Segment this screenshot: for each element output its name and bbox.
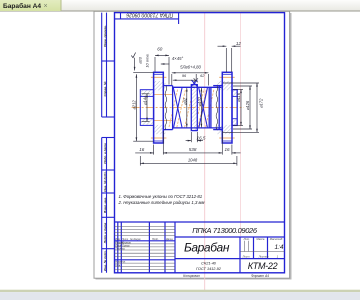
wavy break line right: [216, 86, 218, 130]
svg-text:5Лв6+4,80: 5Лв6+4,80: [180, 65, 201, 70]
dim 1048 ext lines: [139, 156, 141, 166]
central divider: [191, 85, 197, 131]
secondary chain line: [173, 79, 196, 81]
svg-text:16: 16: [224, 147, 230, 152]
part: left hub: [140, 90, 153, 126]
svg-text:№ докум.: № докум.: [130, 238, 141, 241]
svg-text:Подп. и дата: Подп. и дата: [103, 222, 107, 243]
svg-text:12: 12: [236, 41, 242, 46]
dia144 ext lines: [142, 93, 150, 95]
technical notes: [118, 194, 205, 205]
svg-text:1048: 1048: [188, 157, 198, 162]
svg-text:⌀212: ⌀212: [132, 100, 137, 110]
dimension texts: [132, 41, 264, 163]
dim 1048 line: [140, 162, 237, 164]
svg-text:Инв. № подл.: Инв. № подл.: [103, 250, 107, 271]
dia212 dim line: [135, 74, 137, 141]
bore lines left: [154, 94, 173, 96]
top designation box (grafa 26): [115, 13, 179, 24]
svg-text:60: 60: [157, 47, 163, 52]
svg-text:Копировал: Копировал: [183, 274, 200, 278]
svg-text:⌀116: ⌀116: [236, 92, 241, 102]
dim 96/62 ext lines: [171, 74, 173, 85]
title block thin row lines: [115, 227, 285, 270]
svg-text:Справ. №: Справ. №: [103, 81, 107, 96]
svg-text:ППКА 713000.09026: ППКА 713000.09026: [126, 12, 173, 18]
svg-text:⌀92: ⌀92: [182, 97, 187, 105]
svg-text:Дата: Дата: [165, 238, 173, 241]
bottom status area: [0, 292, 360, 300]
rope crossover X above divider: [191, 80, 197, 86]
active tab: [0, 0, 61, 11]
barrel inner walls: [172, 86, 174, 130]
top bar: [0, 0, 360, 11]
side column strip verticals: [102, 13, 115, 273]
sheet shadow: [96, 13, 292, 280]
part: right flange: [222, 72, 232, 143]
dia172 dim line: [256, 83, 258, 132]
dim 12 line: [218, 45, 227, 47]
svg-text:×: ×: [44, 3, 48, 10]
dim 16,5 ext+arrows: [190, 132, 192, 142]
svg-text:Лист: Лист: [242, 255, 251, 259]
hatch right flange top: [217, 81, 231, 90]
dia92 dim line: [186, 88, 188, 128]
title block small texts: [115, 238, 173, 267]
svg-text:Взам. инв.: Взам. инв.: [103, 197, 107, 213]
hatch right hub strips: [232, 90, 237, 96]
part: left flange: [154, 72, 164, 143]
bottom chain line: [135, 152, 153, 154]
svg-text:Масштаб: Масштаб: [270, 237, 283, 241]
dia126 dim line: [249, 86, 251, 129]
svg-text:⌀172: ⌀172: [259, 98, 264, 108]
dim 60 ext lines: [154, 57, 156, 72]
svg-text:⌀20: ⌀20: [138, 56, 143, 64]
svg-text:⌀144: ⌀144: [142, 95, 147, 105]
svg-text:Подп. и дата: Подп. и дата: [103, 143, 107, 164]
svg-text:Барабан А4: Барабан А4: [3, 2, 41, 10]
svg-text:Орлов: Орлов: [122, 245, 130, 248]
svg-text:ППКА 713000.09026: ППКА 713000.09026: [192, 226, 258, 235]
sheet paper: [94, 11, 290, 278]
barrel outer top/bottom: [163, 86, 222, 130]
side column dividers: [102, 60, 115, 62]
roughness check: [131, 53, 135, 58]
svg-text:Утв.: Утв.: [115, 264, 121, 267]
part: right hub: [232, 90, 237, 126]
svg-text:Подп.: Подп.: [152, 238, 159, 241]
svg-text:Формат А4: Формат А4: [251, 274, 269, 278]
cone wall diagonals blue: [173, 88, 207, 127]
chamfer leader: [161, 63, 170, 65]
svg-text:16: 16: [139, 147, 145, 152]
title block outer lines: [115, 222, 285, 273]
hatch left hub strips: [141, 90, 153, 96]
title block headers: [242, 237, 283, 259]
pink print-guide line 2: [239, 12, 241, 236]
hatch right flange bottom: [217, 125, 231, 134]
svg-text:1:4: 1:4: [274, 244, 283, 251]
bottom separator band: [0, 290, 360, 292]
side column rotated labels: [103, 25, 107, 271]
pink print-guide line 1: [204, 12, 206, 292]
svg-text:Т.контр.: Т.контр.: [115, 248, 125, 251]
hole leader: [134, 58, 136, 71]
dia102 dim line: [200, 88, 202, 128]
svg-text:ГОСТ 1412-92: ГОСТ 1412-92: [196, 267, 222, 271]
bolt-circle lines right flange: [219, 76, 235, 78]
svg-text:Лит.: Лит.: [243, 237, 251, 241]
dia116 dim line: [240, 90, 242, 126]
dim 12 ext lines: [225, 48, 227, 72]
svg-text:16,5: 16,5: [197, 136, 206, 141]
svg-text:538: 538: [189, 147, 197, 152]
wavy break line left: [165, 86, 167, 130]
svg-text:1. Формовочные уклоны по ГОСТ: 1. Формовочные уклоны по ГОСТ 3212-81: [119, 194, 203, 199]
svg-text:Масса: Масса: [256, 237, 264, 241]
svg-text:4×45°: 4×45°: [172, 56, 184, 61]
dia212 ext lines: [133, 72, 153, 74]
hatch left flange bottom: [154, 125, 165, 134]
svg-text:⌀102: ⌀102: [197, 96, 202, 106]
svg-text:КТМ-22: КТМ-22: [248, 261, 278, 271]
bolt-circle lines left flange: [151, 76, 167, 78]
bottom chain ext lines: [153, 145, 155, 155]
hatch left flange top: [154, 81, 165, 90]
centerline: [132, 107, 244, 109]
svg-text:Перв. примен.: Перв. примен.: [103, 25, 107, 47]
svg-text:Инв. № дубл.: Инв. № дубл.: [103, 171, 107, 192]
svg-text:Листов: Листов: [258, 255, 269, 259]
svg-text:СЧ21-40: СЧ21-40: [201, 261, 217, 265]
orange cone hatch diagonals: [169, 89, 214, 128]
dim 96/62 line: [172, 72, 209, 74]
dia144 dim line: [146, 94, 148, 122]
svg-text:10 отв.: 10 отв.: [144, 53, 149, 67]
svg-text:Барабан: Барабан: [184, 241, 230, 255]
right dia ext lines: [233, 89, 243, 91]
dim 60 line: [155, 54, 169, 56]
drawing frame: [115, 13, 285, 273]
svg-text:⌀126: ⌀126: [245, 100, 250, 110]
svg-text:2. Неуказанные литейные радиус: 2. Неуказанные литейные радиусы 1,3 мм: [118, 200, 205, 205]
